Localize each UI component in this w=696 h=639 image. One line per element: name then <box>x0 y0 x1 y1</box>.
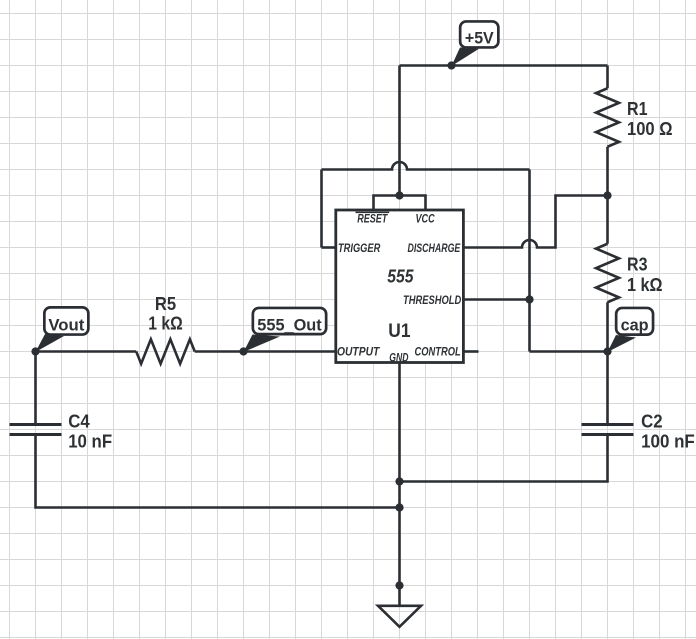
svg-text:GND: GND <box>389 350 408 364</box>
capacitor C2 <box>582 425 634 435</box>
node label Vout <box>36 307 89 352</box>
junction dot C4 return <box>395 503 403 511</box>
svg-text:C2: C2 <box>641 412 663 432</box>
wire C2 top lead <box>606 352 609 424</box>
ground symbol <box>378 606 421 627</box>
svg-text:RESET: RESET <box>357 212 388 226</box>
resistor R5 <box>136 339 195 364</box>
op-amp U1 555 timer IC body <box>336 210 464 363</box>
wire C4 bottom lead <box>36 436 400 508</box>
wire discharge run with hop, up and over to R1/R3 node <box>463 196 608 248</box>
wire R3 bottom lead <box>606 302 609 351</box>
wire R3 top lead <box>606 196 609 244</box>
svg-text:OUTPUT: OUTPUT <box>337 344 381 358</box>
junction dot threshold node <box>525 295 533 303</box>
wire ground stem <box>398 586 401 606</box>
svg-text:555: 555 <box>387 267 414 287</box>
wire trigger-threshold drop <box>528 170 531 352</box>
junction dot +5V tap <box>447 61 455 69</box>
junction dot discharge node <box>603 191 611 199</box>
wire threshold stub <box>463 298 530 301</box>
wire GND lead <box>398 363 401 586</box>
svg-text:100 Ω: 100 Ω <box>627 119 673 139</box>
svg-text:DISCHARGE: DISCHARGE <box>408 241 462 255</box>
svg-text:10 nF: 10 nF <box>68 432 112 452</box>
wire output run <box>244 350 337 353</box>
wire trigger top run with hop over VCC riser <box>322 162 530 170</box>
svg-text:+5V: +5V <box>465 29 494 48</box>
junction dot C2 return <box>395 477 403 485</box>
svg-text:cap: cap <box>621 316 649 335</box>
wire VCC riser <box>398 66 401 196</box>
wire R5 right lead <box>195 350 244 353</box>
power flag +5V <box>452 21 499 66</box>
junction dot cap node <box>603 347 611 355</box>
svg-text:U1: U1 <box>388 321 411 342</box>
wire R1 top lead <box>606 66 609 89</box>
svg-text:1 kΩ: 1 kΩ <box>627 275 663 295</box>
svg-text:555_Out: 555_Out <box>257 315 322 334</box>
svg-text:R1: R1 <box>627 99 648 119</box>
capacitor C4 <box>10 425 62 435</box>
svg-text:1 kΩ: 1 kΩ <box>148 314 183 334</box>
svg-text:Vout: Vout <box>48 315 84 334</box>
svg-text:R5: R5 <box>155 294 176 314</box>
wire trigger riser <box>320 170 323 248</box>
svg-text:C4: C4 <box>68 412 90 432</box>
junction dot Vout node <box>31 347 39 355</box>
node label cap <box>608 308 654 352</box>
node label 555_Out <box>244 308 327 352</box>
svg-text:R3: R3 <box>627 254 648 274</box>
wire R1 bottom lead <box>606 147 609 196</box>
wire control stub <box>463 350 479 353</box>
svg-text:THRESHOLD: THRESHOLD <box>403 293 461 307</box>
svg-text:TRIGGER: TRIGGER <box>338 241 381 255</box>
svg-text:CONTROL: CONTROL <box>415 344 461 358</box>
junction dot RESET/VCC node <box>395 191 403 199</box>
resistor R1 <box>596 88 619 147</box>
junction dot ground node <box>395 581 403 589</box>
wire C4 top lead <box>34 352 37 424</box>
svg-text:VCC: VCC <box>416 212 435 226</box>
resistor R3 <box>596 244 619 303</box>
svg-text:100 nF: 100 nF <box>641 431 695 451</box>
wire C2 bottom lead <box>400 436 608 482</box>
junction dot 555_Out node <box>239 347 247 355</box>
wire R5 left lead <box>36 350 137 353</box>
wire trigger stub <box>322 246 337 249</box>
wire RESET/VCC tee <box>374 196 426 212</box>
wire link to cap node <box>530 350 608 353</box>
wire +5V top rail <box>400 64 608 67</box>
